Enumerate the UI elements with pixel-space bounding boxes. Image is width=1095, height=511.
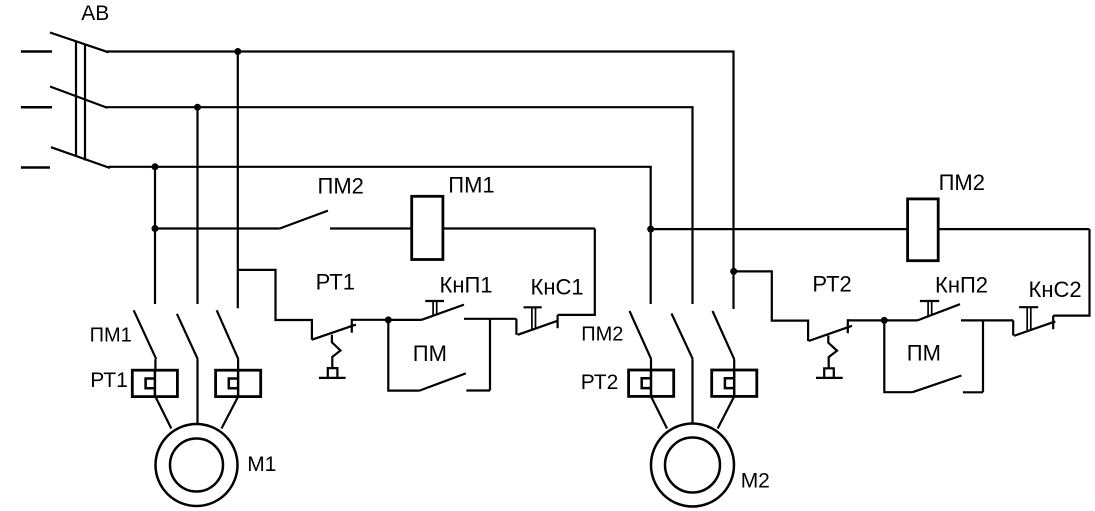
svg-text:М2: М2 xyxy=(741,470,770,493)
svg-text:РТ2: РТ2 xyxy=(581,371,619,394)
svg-text:АВ: АВ xyxy=(81,2,109,25)
svg-text:ПМ1: ПМ1 xyxy=(90,324,132,346)
svg-text:ПМ: ПМ xyxy=(907,341,941,366)
svg-text:РТ2: РТ2 xyxy=(812,272,851,297)
svg-text:ПМ: ПМ xyxy=(413,341,447,366)
svg-text:ПМ1: ПМ1 xyxy=(448,172,494,197)
svg-text:РТ1: РТ1 xyxy=(316,270,355,295)
svg-text:КнП2: КнП2 xyxy=(935,272,988,297)
svg-text:КнС2: КнС2 xyxy=(1029,277,1082,302)
svg-text:КнП1: КнП1 xyxy=(440,272,493,297)
svg-text:РТ1: РТ1 xyxy=(90,369,128,392)
svg-text:ПМ2: ПМ2 xyxy=(581,324,623,346)
svg-text:ПМ2: ПМ2 xyxy=(318,174,364,199)
svg-text:КнС1: КнС1 xyxy=(531,275,584,300)
svg-text:М1: М1 xyxy=(247,453,276,476)
svg-text:ПМ2: ПМ2 xyxy=(939,170,985,195)
